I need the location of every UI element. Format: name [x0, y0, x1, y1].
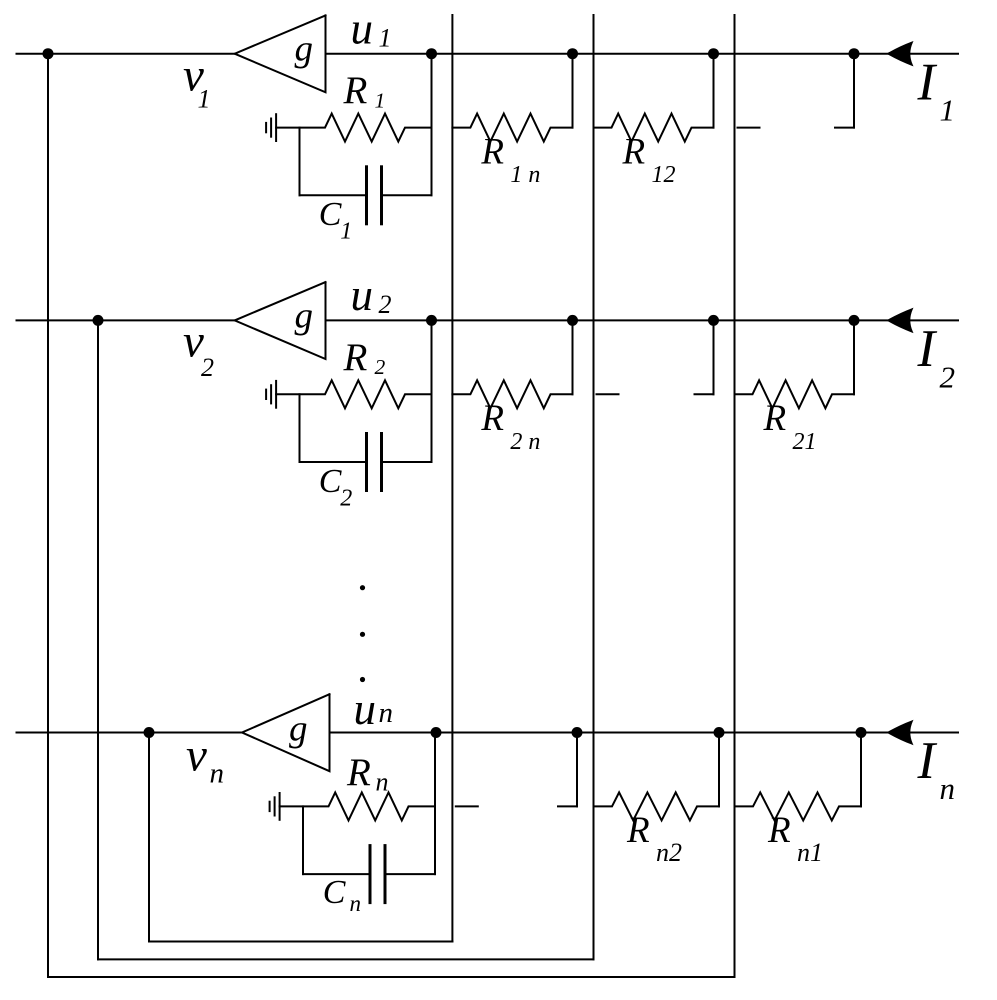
- svg-text:g: g: [295, 29, 314, 70]
- svg-text:n: n: [940, 771, 956, 806]
- svg-text:1: 1: [375, 88, 386, 112]
- svg-text:2: 2: [375, 355, 386, 379]
- svg-text:R: R: [767, 810, 791, 851]
- svg-text:u: u: [351, 270, 374, 320]
- svg-text:g: g: [289, 709, 308, 750]
- svg-text:2: 2: [940, 360, 956, 395]
- svg-text:C: C: [319, 196, 342, 233]
- svg-text:n2: n2: [656, 838, 682, 867]
- svg-text:R: R: [763, 398, 787, 439]
- svg-text:R: R: [343, 336, 368, 379]
- svg-text:n: n: [350, 891, 362, 916]
- svg-text:12: 12: [652, 162, 676, 188]
- svg-text:R: R: [346, 751, 371, 794]
- svg-text:1: 1: [940, 93, 956, 128]
- svg-text:v: v: [186, 729, 207, 781]
- svg-text:g: g: [295, 295, 314, 336]
- svg-text:C: C: [323, 874, 346, 911]
- svg-text:2: 2: [340, 486, 352, 512]
- svg-text:2: 2: [201, 353, 214, 382]
- svg-text:I: I: [917, 732, 938, 790]
- svg-text:1: 1: [198, 85, 211, 114]
- svg-text:u: u: [354, 684, 377, 734]
- svg-text:n1: n1: [797, 838, 823, 867]
- svg-text:I: I: [917, 53, 938, 111]
- svg-text:1: 1: [340, 219, 352, 245]
- svg-text:R: R: [626, 810, 650, 851]
- svg-text:I: I: [917, 320, 938, 378]
- svg-text:u: u: [351, 3, 374, 53]
- svg-text:n: n: [376, 767, 389, 796]
- svg-text:R: R: [622, 131, 646, 172]
- svg-text:R: R: [343, 69, 368, 112]
- svg-text:R: R: [480, 398, 504, 439]
- svg-text:2 n: 2 n: [510, 429, 540, 455]
- svg-text:n: n: [379, 697, 394, 729]
- svg-text:n: n: [210, 758, 225, 790]
- svg-text:1: 1: [379, 23, 392, 52]
- svg-text:1 n: 1 n: [510, 162, 540, 188]
- svg-text:C: C: [319, 463, 342, 500]
- svg-text:2: 2: [379, 290, 392, 319]
- svg-text:21: 21: [793, 429, 817, 455]
- svg-text:R: R: [480, 131, 504, 172]
